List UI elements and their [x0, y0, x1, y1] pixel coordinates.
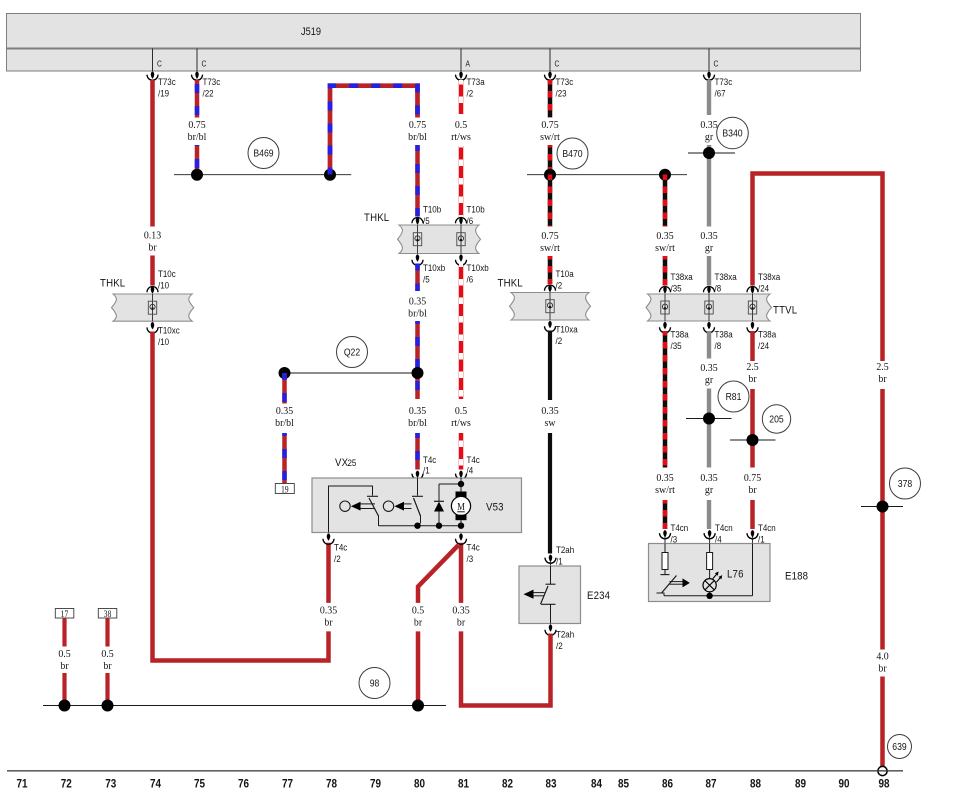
node label Q22: [337, 337, 368, 368]
svg-text:br: br: [324, 617, 333, 628]
E234 switch blade: [541, 586, 549, 604]
svg-text:17: 17: [61, 608, 69, 619]
connector T2ah/1: [545, 544, 574, 566]
svg-text:0.75: 0.75: [541, 231, 558, 242]
junction dot rail 3: [458, 523, 464, 529]
svg-text:br: br: [148, 242, 157, 253]
node B469 wire: [174, 174, 351, 176]
svg-text:0.35: 0.35: [656, 231, 673, 242]
svg-text:639: 639: [892, 741, 906, 753]
wire 0.35 sw upper: [548, 331, 552, 401]
svg-text:/24: /24: [758, 340, 769, 351]
wire 0.35 br to T4c/2: [326, 543, 331, 603]
svg-text:sw/rt: sw/rt: [655, 485, 675, 496]
connector T10xb/5: [412, 254, 445, 284]
svg-text:78: 78: [326, 778, 337, 791]
junction dot 98 a: [59, 700, 71, 712]
E188 resistor 1: [661, 544, 670, 575]
junction dot B469 left: [191, 169, 203, 181]
label 0.35 br/bl (left drop): [275, 406, 294, 429]
wire 0.35 br/bl to terminal 19: [282, 373, 287, 404]
junction dot 205: [747, 434, 759, 446]
track scale line: [7, 770, 903, 771]
connector T38xa/35: [660, 271, 693, 293]
junction dot B470 left: [544, 169, 556, 181]
svg-text:gr: gr: [705, 243, 714, 254]
svg-text:/19: /19: [158, 88, 169, 99]
wire 0.13 br lower: [150, 256, 155, 286]
svg-text:br: br: [457, 617, 466, 628]
wire 2.5 br to 205 node: [750, 389, 755, 468]
connector T38a/24: [747, 322, 776, 351]
svg-text:75: 75: [194, 778, 205, 791]
svg-text:T73c: T73c: [203, 76, 221, 87]
svg-text:T2ah: T2ah: [556, 544, 574, 555]
svg-text:/35: /35: [671, 283, 682, 294]
svg-text:sw/rt: sw/rt: [540, 132, 560, 143]
V53 switch 1 actuator: [340, 501, 375, 511]
svg-text:T10b: T10b: [423, 204, 441, 215]
svg-text:br/bl: br/bl: [408, 132, 427, 143]
label 0.35 sw/rt (lower): [655, 473, 675, 496]
E234 switch contact upper: [546, 566, 556, 584]
node Q22 wire: [285, 372, 418, 374]
label 0.5 br (diag): [412, 605, 424, 628]
svg-text:/1: /1: [556, 556, 563, 567]
node label 639: [888, 735, 912, 759]
svg-text:T73c: T73c: [556, 76, 574, 87]
svg-text:T4c: T4c: [334, 542, 348, 553]
label 0.75 sw/rt (lower): [540, 231, 560, 254]
component TTVL (box): [646, 294, 772, 321]
V53 switch 2 blade: [414, 498, 421, 526]
svg-text:/2: /2: [334, 553, 341, 564]
svg-text:Q22: Q22: [344, 347, 360, 359]
svg-text:sw: sw: [545, 418, 557, 429]
svg-text:378: 378: [898, 478, 912, 490]
connector T10xb/6: [456, 254, 489, 284]
connector T4c/1: [412, 454, 437, 479]
wire 0.35 sw/rt upper: [663, 175, 668, 227]
connector T10a/2: [545, 268, 574, 292]
label 2.5 br (right leg): [876, 362, 888, 385]
junction dot 98 c: [412, 700, 424, 712]
svg-text:/2: /2: [556, 640, 563, 651]
connector T10b/5: [412, 204, 441, 226]
junction dot rail 1: [414, 523, 420, 529]
svg-text:/23: /23: [556, 88, 567, 99]
svg-text:/10: /10: [158, 280, 169, 291]
svg-text:br/bl: br/bl: [408, 418, 427, 429]
svg-text:4.0: 4.0: [876, 651, 888, 662]
connector T10c/10: [147, 268, 176, 293]
svg-text:gr: gr: [705, 375, 714, 386]
connector T73c/67 on J519: [704, 49, 733, 99]
svg-text:T38xa: T38xa: [758, 271, 780, 282]
component E234 (box): [519, 566, 581, 624]
node R81 wire: [686, 418, 732, 420]
svg-text:br: br: [748, 374, 757, 385]
svg-text:C: C: [714, 59, 719, 69]
junction dot 98 b: [102, 700, 114, 712]
svg-text:0.35: 0.35: [276, 406, 293, 417]
wire 0.75 br to T4cn/1: [750, 500, 755, 529]
node 205 wire: [730, 439, 776, 441]
connector T2ah/2: [545, 624, 574, 651]
wire 0.35 sw/rt to T4cn/3: [663, 500, 668, 529]
label 0.35 gr (top): [700, 120, 717, 143]
svg-text:/1: /1: [423, 465, 430, 476]
svg-text:gr: gr: [705, 485, 714, 496]
wire 0.35 gr to T4cn/4: [707, 500, 711, 529]
junction dot rail 2: [436, 523, 442, 529]
svg-text:J519: J519: [301, 27, 321, 39]
wire 0.75 br/bl to node: [195, 145, 200, 175]
wire T73a/2 0.5 rt/ws upper: [459, 80, 464, 114]
svg-text:rt/ws: rt/ws: [451, 132, 471, 143]
svg-text:0.5: 0.5: [455, 120, 467, 131]
terminal 38 box: [98, 608, 117, 619]
svg-text:br: br: [748, 485, 757, 496]
wire 2.5 br below TTVL: [750, 331, 755, 361]
svg-text:br/bl: br/bl: [188, 132, 207, 143]
svg-text:B340: B340: [722, 128, 742, 140]
node label 98: [359, 668, 390, 699]
label 0.35 br/bl (upper): [408, 296, 427, 319]
V53 switch 2 actuator: [383, 501, 411, 511]
svg-text:0.35: 0.35: [700, 120, 717, 131]
wire 0.35 sw/rt to T38xa/35: [663, 256, 668, 286]
wire 0.5 br from 17: [62, 618, 66, 647]
label 0.35 br (mid): [452, 605, 469, 628]
svg-text:/2: /2: [556, 335, 563, 346]
svg-text:T73c: T73c: [158, 76, 176, 87]
label TTVL: [773, 304, 797, 317]
svg-text:/8: /8: [715, 340, 722, 351]
svg-text:br: br: [414, 617, 423, 628]
svg-text:0.75: 0.75: [409, 120, 426, 131]
label THKL left: [100, 277, 125, 290]
svg-text:M: M: [457, 501, 465, 513]
svg-text:B470: B470: [562, 148, 582, 160]
svg-text:/4: /4: [467, 465, 474, 476]
label 0.35 gr (2): [700, 231, 717, 254]
svg-text:T10xb: T10xb: [423, 262, 445, 273]
svg-text:T10c: T10c: [158, 268, 176, 279]
label 0.75 br: [744, 473, 761, 496]
svg-text:/35: /35: [671, 340, 682, 351]
svg-text:A: A: [466, 59, 471, 69]
label 0.35 sw/rt (upper): [655, 231, 675, 254]
E234 switch contact lower: [541, 604, 556, 623]
node label B340: [717, 117, 749, 149]
terminal 19 box: [275, 484, 294, 495]
svg-text:/2: /2: [467, 88, 474, 99]
svg-text:72: 72: [61, 778, 72, 791]
connector T73c/23 on J519: [545, 49, 574, 99]
wire 0.35 gr to T38xa/8: [707, 256, 711, 286]
svg-text:85: 85: [618, 778, 629, 791]
component E188 (box): [649, 544, 771, 602]
svg-text:E234: E234: [587, 589, 610, 602]
svg-text:T38a: T38a: [715, 329, 733, 340]
connector T38xa/24: [747, 271, 780, 293]
svg-text:br: br: [878, 663, 887, 674]
label E234: [587, 589, 610, 602]
node label R81: [718, 381, 749, 412]
svg-text:80: 80: [414, 778, 425, 791]
V53 bottom rail: [379, 525, 462, 527]
svg-text:T10a: T10a: [556, 268, 574, 279]
component THKL left (box): [112, 294, 194, 321]
svg-text:T4c: T4c: [423, 454, 437, 465]
wire T73c/19 0.13 br upper: [150, 80, 155, 227]
connector T10xa/2: [545, 321, 578, 346]
terminal 17 box: [55, 608, 74, 619]
wire 0.75 sw/rt to T10a/2: [548, 256, 553, 284]
svg-text:2.5: 2.5: [746, 362, 758, 373]
svg-text:0.35: 0.35: [700, 231, 717, 242]
svg-text:84: 84: [591, 778, 602, 791]
wire 0.35 sw/rt below TTVL: [663, 331, 668, 468]
junction dot R81: [703, 413, 715, 425]
svg-text:V53: V53: [486, 501, 504, 514]
svg-text:90: 90: [838, 778, 849, 791]
terminal 98 open circle: [878, 766, 887, 775]
node 378 wire: [861, 506, 903, 508]
svg-text:sw/rt: sw/rt: [655, 243, 675, 254]
wire 0.35 gr through R81 node: [707, 389, 711, 468]
component VX25/V53 (box): [312, 478, 522, 533]
svg-text:0.5: 0.5: [455, 406, 467, 417]
svg-text:T10xb: T10xb: [467, 262, 489, 273]
svg-text:0.35: 0.35: [656, 473, 673, 484]
wire 0.75 sw/rt to B470 node: [548, 145, 553, 175]
E188 bottom rail: [664, 544, 753, 596]
wire 0.35 br/bl below T10xb/5: [415, 264, 420, 292]
wire 0.35 br U-shape from T4c/3 to T2ah/2: [461, 631, 551, 705]
svg-text:81: 81: [458, 778, 469, 791]
svg-text:0.35: 0.35: [409, 296, 426, 307]
svg-text:0.75: 0.75: [188, 120, 205, 131]
svg-text:T10xa: T10xa: [556, 324, 578, 335]
wire 0.35 sw to T2ah/1: [548, 433, 552, 554]
svg-text:25: 25: [348, 457, 357, 468]
svg-text:0.75: 0.75: [541, 120, 558, 131]
component THKL top (box): [398, 225, 481, 254]
connector T73c/22 on J519: [192, 49, 221, 99]
svg-text:R81: R81: [726, 391, 742, 403]
svg-text:T38a: T38a: [758, 329, 776, 340]
connector T73a/2 on J519: [456, 49, 485, 99]
V53 switch 1 blade: [369, 498, 379, 526]
svg-text:71: 71: [16, 778, 27, 791]
node 98 wire: [43, 705, 446, 707]
svg-text:/22: /22: [203, 88, 214, 99]
wire 0.5 rt/ws below T10xb/6: [459, 264, 464, 400]
svg-text:/10: /10: [158, 336, 169, 347]
svg-text:0.75: 0.75: [744, 473, 761, 484]
wire 0.5 br from 17 lower: [62, 673, 66, 706]
connector strip: [7, 49, 861, 71]
label 0.35 sw: [541, 406, 558, 429]
wire 0.35 br/bl to Q22 node: [415, 321, 420, 399]
label L76: [727, 568, 744, 581]
label 0.35 br/bl (Q22 mid): [408, 406, 427, 429]
svg-text:82: 82: [502, 778, 513, 791]
connector T10b/6: [456, 204, 485, 226]
component THKL mid (box): [510, 293, 591, 321]
label 0.75 sw/rt: [540, 120, 560, 143]
svg-text:73: 73: [105, 778, 116, 791]
connector T4cn/3: [660, 522, 689, 544]
wire T73c/67 0.35 gr upper: [707, 80, 711, 115]
wire 0.5 rt/ws to T4c/4: [459, 433, 464, 470]
label THKL top: [364, 211, 389, 224]
track numbers 71-98: [16, 778, 889, 791]
wire T73c/22 0.75 br/bl upper: [195, 80, 200, 118]
label V53: [486, 501, 504, 514]
svg-text:0.5: 0.5: [58, 649, 70, 660]
svg-text:T4cn: T4cn: [671, 522, 689, 533]
junction dot Q22 right: [412, 367, 424, 379]
svg-text:0.5: 0.5: [101, 649, 113, 660]
label THKL mid: [498, 277, 523, 290]
label 0.75 br/bl (left): [188, 120, 207, 143]
E234 actuator arrow: [524, 590, 545, 599]
svg-text:0.35: 0.35: [700, 473, 717, 484]
connector T4c/4: [456, 454, 481, 479]
svg-text:THKL: THKL: [364, 211, 389, 224]
connector T4c/3: [456, 533, 481, 564]
connector T38a/8: [704, 322, 733, 351]
connector T4c/2: [323, 533, 348, 564]
svg-text:C: C: [555, 59, 560, 69]
wire 0.5 br from 38 lower: [105, 673, 109, 706]
svg-text:74: 74: [150, 778, 161, 791]
wire 0.5 br diagonal from T4c/3: [418, 545, 459, 603]
svg-text:E188: E188: [785, 570, 808, 583]
svg-text:T4c: T4c: [467, 542, 481, 553]
junction dot B469 right: [324, 169, 336, 181]
wire 0.75 br/bl bracket: [330, 86, 418, 175]
label 2.5 br (below TTVL): [746, 362, 758, 385]
junction dot motor top: [458, 481, 464, 487]
svg-text:0.35: 0.35: [409, 406, 426, 417]
wire 0.35 gr through B340: [707, 145, 711, 227]
svg-text:T4c: T4c: [467, 454, 481, 465]
svg-text:T2ah: T2ah: [556, 629, 574, 640]
wire 0.5 br to node 98: [416, 631, 421, 705]
svg-text:/2: /2: [556, 280, 563, 291]
svg-text:T38a: T38a: [671, 329, 689, 340]
label 0.13 br: [144, 230, 161, 253]
node B470 wire: [527, 174, 687, 176]
svg-text:br: br: [60, 661, 69, 672]
wire 0.35 br upper to T4c/3: [459, 543, 464, 603]
svg-text:98: 98: [370, 678, 380, 690]
svg-text:19: 19: [281, 484, 289, 495]
svg-text:T38xa: T38xa: [715, 271, 737, 282]
svg-text:C: C: [202, 59, 207, 69]
label 0.35 gr (4): [700, 473, 717, 496]
svg-text:TTVL: TTVL: [773, 304, 797, 317]
V53 wire left L: [329, 486, 379, 533]
svg-text:83: 83: [545, 778, 556, 791]
E188 sensor wiper: [657, 576, 690, 594]
svg-text:gr: gr: [705, 132, 714, 143]
label 0.35 br (left): [320, 605, 337, 628]
svg-text:205: 205: [769, 414, 783, 426]
svg-text:br/bl: br/bl: [408, 308, 427, 319]
svg-text:T4cn: T4cn: [715, 522, 733, 533]
wire 0.35 br/bl to T4c/1: [415, 433, 420, 470]
wire 2.5 br right leg mid: [880, 389, 885, 650]
motor V53: [451, 478, 470, 526]
junction dot B340: [703, 147, 715, 159]
label 0.5 br (38): [101, 649, 113, 672]
wire 0.75 sw/rt below node: [548, 175, 553, 227]
svg-text:0.5: 0.5: [412, 605, 424, 616]
node label B469: [248, 138, 279, 169]
wire T73c/23 0.75 sw/rt upper: [548, 80, 553, 118]
svg-text:79: 79: [370, 778, 381, 791]
svg-text:T10xc: T10xc: [158, 325, 180, 336]
svg-text:2.5: 2.5: [876, 362, 888, 373]
node label B470: [557, 138, 588, 169]
node B340 wire: [688, 152, 735, 154]
svg-text:T73a: T73a: [467, 76, 485, 87]
svg-text:T10b: T10b: [467, 204, 485, 215]
junction dot E188: [706, 593, 712, 599]
svg-text:98: 98: [878, 778, 889, 791]
connector T38xa/8: [704, 271, 737, 293]
label 0.35 gr (3): [700, 363, 717, 386]
svg-text:br: br: [103, 661, 112, 672]
svg-text:THKL: THKL: [498, 277, 523, 290]
wire 0.35 gr below TTVL: [707, 331, 711, 359]
svg-text:THKL: THKL: [100, 277, 125, 290]
label 0.5 rt/ws (lower): [451, 406, 471, 429]
connector T10xc/10: [147, 322, 180, 347]
E188 resistor 2: [707, 544, 713, 579]
wire br from T10xc/10 down and right to T4c/2 corner: [153, 332, 329, 661]
svg-text:rt/ws: rt/ws: [451, 418, 471, 429]
svg-text:B469: B469: [253, 148, 273, 160]
svg-text:0.35: 0.35: [541, 406, 558, 417]
svg-text:/8: /8: [715, 283, 722, 294]
label 0.5 br (17): [58, 649, 70, 672]
node label 378: [890, 468, 921, 499]
wire 0.5 rt/ws to T10b/6: [459, 146, 464, 217]
svg-text:/24: /24: [758, 283, 769, 294]
wire 2.5 br bracket from T38xa/24: [753, 174, 883, 362]
label 0.75 br/bl (right): [408, 120, 427, 143]
svg-text:77: 77: [282, 778, 293, 791]
svg-text:0.13: 0.13: [144, 230, 161, 241]
svg-text:76: 76: [238, 778, 249, 791]
svg-text:VX: VX: [335, 456, 348, 469]
wire 0.75 br/bl to T10b/5: [415, 145, 420, 217]
wire 0.35 br/bl lower to 19: [282, 433, 287, 484]
svg-text:C: C: [157, 59, 162, 69]
svg-text:T73c: T73c: [715, 76, 733, 87]
svg-text:br: br: [878, 374, 887, 385]
diode V53: [434, 484, 461, 526]
junction dot B470 right: [659, 169, 671, 181]
svg-text:br/bl: br/bl: [275, 418, 294, 429]
svg-text:88: 88: [750, 778, 761, 791]
